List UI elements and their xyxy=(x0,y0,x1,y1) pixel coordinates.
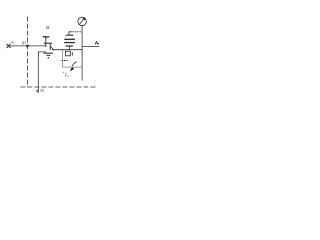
crystal X1 body bottom xyxy=(65,42,75,44)
svg-text:in: in xyxy=(11,41,14,45)
wire dashed horizontal net xyxy=(21,86,96,88)
wire input to gate xyxy=(10,45,46,47)
wire dashed vertical net xyxy=(26,17,28,87)
crystal X1 top lead xyxy=(68,32,70,36)
crystal X1 bottom lead xyxy=(69,46,71,50)
annotation curve arrow xyxy=(72,62,76,66)
wire stub down xyxy=(62,50,64,67)
annotation dotted tail xyxy=(63,72,69,77)
transistor M1 top bar xyxy=(44,42,52,44)
crystal X1 bottom plate xyxy=(66,45,73,47)
annotation stub line xyxy=(63,66,82,68)
crystal X1 body top xyxy=(65,38,75,40)
transistor M1 arrow xyxy=(51,47,53,49)
transistor M1 source bar xyxy=(44,52,53,54)
node faint dots xyxy=(94,80,96,86)
dotted net stub xyxy=(62,60,67,62)
output terminal mark xyxy=(95,42,97,44)
current source I1 arrow xyxy=(79,19,83,24)
svg-text:B: B xyxy=(46,25,49,31)
current source I1 lead xyxy=(81,26,83,81)
capacitor plate above M1 xyxy=(43,36,49,38)
transistor M1 channel bar xyxy=(49,43,51,49)
input terminal X xyxy=(7,44,11,48)
crystal flag xyxy=(69,31,71,33)
wire source L xyxy=(38,52,46,93)
current source I1 circle xyxy=(78,17,87,26)
dotted wire to source xyxy=(70,31,82,33)
annotation arrow head xyxy=(70,67,74,72)
crystal X1 top plate xyxy=(66,34,73,36)
transistor M1 bulk bar xyxy=(47,54,50,56)
capacitor lead xyxy=(45,37,47,46)
svg-text:1k: 1k xyxy=(40,88,44,93)
wire output xyxy=(82,46,99,48)
node junction dot xyxy=(26,45,29,48)
wire main horizontal xyxy=(53,49,82,51)
current arrow head xyxy=(37,90,39,93)
label U1 box xyxy=(66,51,71,56)
svg-text:g1: g1 xyxy=(22,41,26,45)
transistor M1 bulk dot xyxy=(48,57,50,59)
